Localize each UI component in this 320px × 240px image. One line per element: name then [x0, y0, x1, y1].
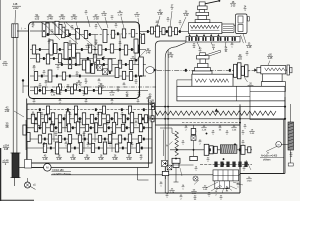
svg-text:1-38: 1-38: [93, 16, 99, 20]
bed: [177, 86, 285, 101]
apron spring shaft gears: [172, 158, 180, 182]
gear z20: [118, 60, 121, 68]
saddle frame corner: [165, 43, 186, 194]
bed right pedestal: [250, 101, 285, 120]
motor drive line: [51, 174, 240, 176]
control rod long: [151, 118, 285, 120]
svg-text:1-60: 1-60: [127, 159, 132, 161]
feed gear row 3: [38, 134, 141, 144]
gear z30b: [129, 72, 132, 81]
feed box bottom labels: [42, 156, 143, 161]
spindle center line: [30, 86, 156, 88]
dense gear shading: [46, 23, 62, 35]
gear z42i: [35, 87, 38, 94]
svg-text:1-45: 1-45: [268, 58, 273, 60]
shaft VII: [30, 89, 148, 91]
apron leaders: [180, 160, 251, 191]
gear z56 on shaft I: [42, 22, 46, 37]
svg-text:1-65: 1-65: [203, 189, 208, 191]
gear z38: [103, 30, 107, 43]
casing right wall lower: [148, 99, 150, 168]
feed shaft collars: [35, 89, 145, 149]
svg-text:2-35: 2-35: [57, 159, 62, 161]
feed gear row 2: [34, 122, 142, 134]
gear f3: [102, 106, 105, 114]
svg-text:⌀142: ⌀142: [13, 7, 19, 10]
vertical link c: [119, 33, 121, 64]
speckle labels right: [156, 18, 249, 57]
selector stub: [247, 17, 249, 22]
casing bottom line: [27, 167, 149, 169]
rapid motor M2: [276, 142, 282, 148]
svg-text:2-35: 2-35: [85, 159, 90, 161]
gear z35j: [85, 87, 88, 94]
gear z28: [110, 44, 113, 53]
motor M1 nameplate: [52, 168, 72, 176]
clutch stack neck: [199, 10, 205, 13]
vertical link a: [75, 31, 77, 50]
gear z32: [93, 54, 96, 62]
speckle labels between: [33, 99, 140, 105]
apron frame top: [155, 124, 240, 126]
label row top 4: [71, 13, 78, 30]
gear z28j: [71, 87, 74, 94]
tailstock body: [261, 66, 286, 74]
shaft III: [30, 49, 146, 51]
leadscrew labels: [147, 96, 152, 121]
lathe axis line: [157, 69, 292, 71]
apron second row: [200, 163, 252, 165]
tailstock label: [267, 54, 273, 66]
label near corner: [137, 49, 152, 60]
svg-text:1-20: 1-20: [3, 65, 8, 67]
svg-text:1-66: 1-66: [232, 129, 237, 131]
svg-text:1-48: 1-48: [168, 56, 173, 58]
feed shaft XI: [27, 138, 152, 140]
apron gear m4: [241, 145, 245, 154]
gear t3: [150, 27, 153, 34]
svg-text:2-45: 2-45: [250, 133, 255, 135]
trip shaft: [140, 31, 235, 33]
speckle labels headstock: [39, 42, 138, 97]
belt tail below pulley: [14, 178, 16, 187]
control rod junction dot: [284, 118, 286, 120]
apron left gear2: [190, 156, 198, 160]
apron gear m5: [248, 147, 251, 153]
svg-text:⌀30: ⌀30: [5, 109, 10, 113]
gear z38b: [58, 54, 61, 63]
friction clutch M1: [97, 65, 102, 71]
spindle nose center: [146, 67, 158, 74]
right outer frame: [240, 97, 284, 174]
svg-text:М: М: [278, 144, 280, 146]
leadscrew wave: [155, 108, 276, 115]
apron gear l1: [191, 129, 196, 135]
gear z51: [55, 21, 59, 34]
chuck lever B: [205, 50, 221, 57]
clutch stack knob: [199, 2, 205, 6]
long internal leaders: [43, 23, 96, 49]
shaft IV: [30, 58, 116, 60]
svg-text:2-43: 2-43: [77, 84, 82, 86]
misc label topleft: [25, 27, 27, 30]
svg-text:⌀148: ⌀148: [3, 159, 9, 163]
vertical link b: [94, 35, 96, 59]
apron gear m3: [214, 146, 217, 153]
tailstock base2: [261, 82, 285, 92]
cross slide screw cluster: [233, 63, 249, 79]
svg-text:148: 148: [13, 2, 18, 6]
gear z39: [65, 30, 68, 37]
svg-text:2-48: 2-48: [47, 16, 53, 20]
feed rod junction dot: [284, 106, 286, 108]
bed inner line: [177, 96, 250, 98]
rack bar: [288, 122, 294, 150]
clutch lever: [205, 0, 220, 4]
apron main shaft: [170, 149, 252, 151]
gear t5: [162, 28, 165, 35]
left gear column: [23, 120, 30, 150]
chuck stack B knob: [200, 53, 206, 56]
casing drop line: [138, 168, 149, 181]
friction clutch M2: [103, 69, 108, 75]
rail pointers: [188, 34, 219, 36]
apron spring hook: [160, 128, 177, 137]
apron labels fan: [160, 177, 253, 196]
clutch stack flange: [196, 12, 209, 15]
saddle frame: [155, 41, 240, 193]
tailstock base: [262, 74, 282, 82]
gear z39b: [122, 71, 125, 79]
svg-text:2-28: 2-28: [202, 129, 207, 131]
gear z48: [76, 53, 80, 65]
gear z27: [96, 60, 99, 68]
scan edge left: [0, 0, 2, 201]
gear f2: [74, 106, 77, 114]
gearbox inner labels 2: [33, 66, 82, 96]
bed divider 1: [235, 86, 237, 101]
gear z30: [111, 30, 114, 38]
apron frame right wall: [239, 104, 241, 193]
shaft V: [55, 64, 146, 66]
labels under apron frame: [166, 194, 197, 201]
cross slide labels: [238, 55, 254, 89]
gear z41: [131, 30, 134, 37]
svg-text:2-43: 2-43: [131, 60, 136, 62]
long top leaders: [87, 16, 140, 38]
bottom belt pulley: [11, 153, 21, 178]
main drive belt: [13, 26, 17, 153]
apron fan labels 2: [208, 193, 223, 201]
gear f1: [46, 106, 49, 114]
shaft VI spindle: [30, 75, 146, 77]
trip rod upper: [234, 25, 236, 27]
right frame label: [290, 153, 293, 158]
labels right of apron: [244, 125, 255, 135]
tailstock handwheel: [286, 65, 292, 75]
gear z26: [34, 72, 37, 81]
bed divider 2: [249, 86, 251, 101]
chuck stack B flange: [198, 63, 209, 67]
gear z45b: [82, 60, 85, 70]
gear z58: [48, 70, 52, 82]
bevel gear pair: [162, 161, 172, 170]
clutch labels: [76, 73, 141, 98]
feed gear row 4: [43, 142, 139, 154]
svg-text:1-21: 1-21: [135, 16, 140, 18]
input shaft stub: [17, 27, 29, 32]
rapid motor link: [281, 143, 288, 145]
svg-text:2-48: 2-48: [113, 159, 118, 161]
svg-text:2-55: 2-55: [110, 94, 115, 96]
gear z50: [98, 45, 102, 55]
tailstock screw spring: [265, 68, 285, 71]
label left of pulley 1: [3, 144, 10, 151]
chuck stack B cap: [197, 56, 210, 59]
apron left shaft: [193, 125, 195, 160]
feed gearbox casing: [27, 104, 152, 163]
svg-text:А: А: [166, 143, 168, 147]
svg-text:1748: 1748: [247, 180, 253, 182]
svg-text:2-35: 2-35: [86, 47, 91, 49]
gear t6: [168, 27, 171, 36]
gear z24: [36, 54, 39, 62]
selector labels: [230, 2, 247, 12]
scan edge bottom: [0, 199, 34, 201]
shaft I: [30, 30, 46, 32]
feed rod: [152, 106, 285, 108]
saddle body: [192, 74, 233, 86]
apron small gears row: [215, 162, 248, 167]
gear t7: [174, 28, 177, 35]
brake housing: [188, 23, 222, 34]
svg-text:1-48: 1-48: [247, 47, 252, 49]
rapid motor leader: [266, 147, 277, 152]
gear z25: [122, 29, 125, 38]
gear z20s: [59, 84, 62, 90]
saddle spring right: [210, 79, 229, 83]
gear z88 bull gear: [139, 57, 144, 76]
right side collars: [147, 30, 241, 151]
gear z55: [84, 31, 87, 39]
labels left of bed: [149, 95, 155, 106]
chuck stack B neck: [200, 59, 206, 63]
apron frame top: [168, 124, 240, 126]
gear z34: [61, 27, 65, 38]
feed shaft XII: [27, 147, 152, 149]
selector square 2: [238, 25, 243, 32]
casing lower left wall: [26, 99, 28, 168]
label row top 3: [59, 13, 66, 27]
gear z28i: [43, 87, 46, 94]
gear t2: [141, 35, 144, 44]
motor mount box: [25, 160, 32, 169]
bed left wall: [177, 80, 192, 86]
rail labels: [199, 46, 228, 54]
apron worm: [220, 145, 237, 154]
gear z28k: [99, 87, 102, 94]
gear z51b: [115, 68, 119, 78]
rack pinion gear: [162, 171, 168, 175]
top right labels: [157, 5, 205, 17]
handwheel symbol: [25, 178, 37, 190]
apron output box: [213, 170, 239, 181]
apron clutch: [191, 136, 196, 141]
svg-text:2-38: 2-38: [102, 15, 107, 17]
top mid labels: [85, 11, 140, 21]
control rod rail: [186, 37, 240, 43]
apron A label: [166, 142, 173, 148]
svg-text:1-36: 1-36: [51, 94, 56, 96]
gear z22: [68, 60, 71, 69]
gear z42: [135, 45, 138, 53]
label row top 2: [47, 13, 57, 26]
rack shaft lower: [288, 150, 293, 166]
pulley label d=142: [12, 2, 21, 23]
left wall label: [2, 61, 8, 67]
apron spring: [175, 131, 178, 156]
svg-text:N=1кВт n=1400: N=1кВт n=1400: [261, 156, 278, 158]
gearbox inner labels: [32, 23, 98, 47]
svg-text:2-45: 2-45: [71, 16, 77, 20]
rail leaders: [197, 35, 243, 49]
svg-text:⌀254: ⌀254: [3, 144, 9, 148]
control rod end gear: [151, 116, 154, 122]
electric motor M1: [44, 164, 52, 172]
clutch gear pair: [86, 60, 95, 73]
svg-text:об/мин: об/мин: [263, 160, 271, 162]
gear t4: [156, 26, 160, 37]
gear f4: [128, 106, 131, 114]
right outer frame: [240, 97, 285, 174]
vertical link d: [134, 50, 136, 65]
headstock right label: [168, 53, 174, 58]
apron fan leaders: [206, 182, 232, 194]
apron frame right wall: [239, 107, 241, 193]
gear z45: [72, 44, 76, 58]
shaft II: [44, 34, 146, 35]
left wall lever: [22, 79, 29, 93]
speckle labels headstock top: [51, 24, 118, 35]
gear z29: [32, 45, 35, 54]
svg-text:2-28: 2-28: [170, 192, 175, 194]
feed box inner labels: [41, 113, 124, 118]
feed shaft VIII: [27, 109, 152, 111]
gear z47: [76, 29, 80, 40]
rack shaft upper: [290, 104, 292, 122]
top right leaders: [157, 11, 186, 30]
tailstock quill: [254, 67, 260, 73]
saddle spring left: [195, 79, 207, 83]
chuck stack B base: [195, 68, 211, 71]
selector leader: [243, 34, 252, 49]
apron left vline: [163, 130, 165, 156]
leadscrew leader: [151, 101, 157, 114]
apron label row: [185, 126, 245, 136]
top belt pulley: [12, 24, 18, 38]
speckle labels feed: [32, 112, 138, 148]
gear hub dot: [135, 59, 137, 61]
label left of pulley 2: [2, 159, 9, 166]
headstock gearbox casing: [29, 22, 140, 99]
svg-text:1-48: 1-48: [71, 159, 76, 161]
clutch stack column: [198, 16, 206, 20]
brake right box: [222, 24, 234, 32]
selector box: [236, 14, 248, 34]
apron dash line: [182, 122, 240, 124]
bed step line: [250, 90, 285, 92]
feed rod end gear: [152, 104, 155, 110]
bevel shaft: [166, 165, 194, 179]
svg-text:⌀25: ⌀25: [35, 16, 40, 20]
chuck stack B base2: [193, 71, 213, 74]
svg-text:2-35: 2-35: [231, 5, 236, 7]
feed box vertical links: [54, 114, 125, 152]
headstock shaft collars: [39, 32, 137, 77]
feed box inner labels 2: [55, 132, 114, 137]
clutch stack base: [195, 20, 210, 23]
brake spring: [190, 25, 219, 28]
svg-text:n=1450 об/мин: n=1450 об/мин: [53, 172, 72, 176]
label row top 5: [93, 13, 102, 30]
gear z35: [124, 45, 127, 55]
gear z33: [62, 72, 65, 80]
apron gear m2: [209, 146, 213, 154]
gear t1: [134, 39, 138, 53]
gear z43: [129, 61, 132, 70]
feed shaft IX: [27, 118, 152, 120]
svg-text:1-48: 1-48: [43, 159, 48, 161]
svg-text:1-48: 1-48: [146, 52, 151, 54]
clutch stack cap: [198, 6, 208, 10]
gear z21 cluster: [49, 40, 57, 55]
rapid motor label: [260, 152, 284, 161]
apron handwheel: [193, 176, 198, 181]
brake housing divider: [190, 29, 219, 31]
svg-text:1-42: 1-42: [184, 15, 189, 17]
apron output block: [215, 181, 230, 188]
gear z34b: [88, 45, 91, 53]
svg-text:1-45: 1-45: [99, 159, 104, 161]
gear z35i: [57, 87, 60, 94]
feed shaft X: [27, 127, 152, 129]
gear z66 sliding: [64, 43, 68, 60]
svg-text:N=10 кВт: N=10 кВт: [53, 168, 65, 172]
norton cone gears: [31, 112, 147, 126]
svg-text:1-35: 1-35: [158, 14, 163, 16]
left outside labels: [5, 106, 24, 129]
motor shaft: [19, 166, 44, 168]
gear z44s: [74, 84, 77, 90]
selector square 1: [238, 16, 243, 23]
svg-text:2-39: 2-39: [118, 14, 123, 16]
speckle labels apron: [182, 140, 246, 172]
svg-text:148: 148: [4, 147, 9, 151]
apron gear m1: [204, 144, 209, 155]
apron frame bottom: [165, 192, 240, 194]
gear z60: [108, 59, 112, 71]
svg-text:1-40: 1-40: [59, 16, 65, 20]
gear z36: [46, 54, 49, 64]
label row top 1: [35, 13, 45, 25]
